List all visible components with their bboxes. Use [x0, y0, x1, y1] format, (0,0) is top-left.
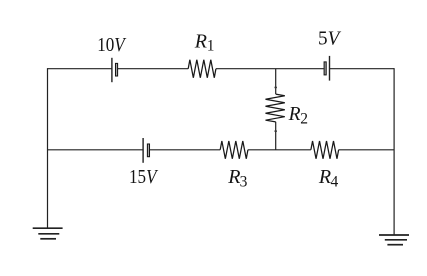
label R1	[194, 31, 215, 55]
resistor R3	[220, 141, 248, 159]
wire right vertical	[393, 68, 395, 235]
label R4	[318, 166, 339, 191]
svg-text:2: 2	[300, 111, 308, 128]
wire top-right segment	[330, 68, 395, 70]
wire bottom segment (battery 15V to R3)	[150, 149, 221, 151]
svg-text:R: R	[227, 166, 240, 188]
wire top segment (R1 to battery 5V, node at R2 top)	[216, 68, 324, 70]
resistor R1	[188, 60, 216, 78]
wire top-left segment	[48, 68, 112, 70]
wire top middle segment (battery 10V to R1)	[118, 68, 188, 70]
svg-text:4: 4	[331, 174, 339, 191]
svg-text:R: R	[194, 31, 207, 53]
svg-text:R: R	[318, 166, 331, 188]
svg-text:5V: 5V	[318, 27, 342, 49]
ground (right)	[379, 235, 409, 245]
label R3	[227, 166, 247, 191]
wire bottom-left segment	[48, 149, 144, 151]
wire bottom-right segment	[339, 149, 394, 151]
battery 15V	[143, 138, 149, 163]
svg-text:3: 3	[240, 174, 248, 191]
svg-text:10V: 10V	[97, 34, 127, 56]
junction tick below R2	[275, 130, 277, 132]
wire bottom segment (R3 to R4, node at R2 bottom)	[248, 149, 311, 151]
ground (left)	[33, 228, 63, 239]
label R2	[288, 104, 308, 128]
wire R2 upper stem	[275, 69, 277, 94]
svg-text:R: R	[288, 104, 301, 125]
svg-text:1: 1	[207, 38, 215, 55]
battery 5V	[324, 56, 329, 81]
battery 10V	[112, 58, 118, 82]
junction tick above R2	[275, 87, 277, 89]
svg-text:15V: 15V	[129, 166, 159, 188]
resistor R4	[311, 141, 339, 159]
wire R2 lower stem	[275, 122, 277, 150]
resistor R2	[266, 94, 285, 122]
wire left vertical	[47, 68, 49, 228]
